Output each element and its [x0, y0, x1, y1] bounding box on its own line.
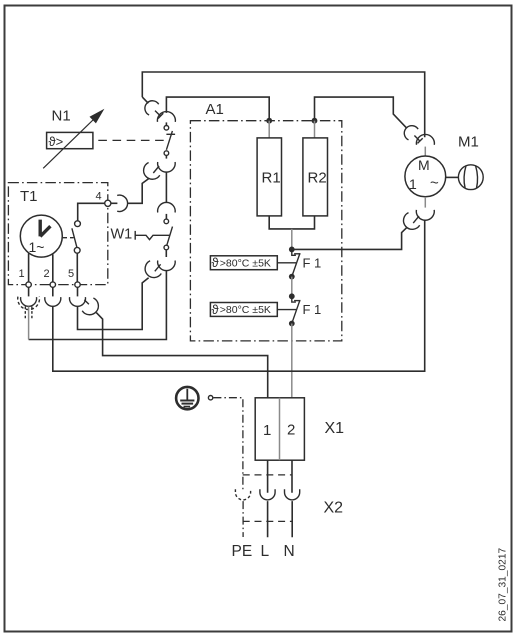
N1 adjustment arrow [43, 109, 104, 169]
N1 thermostat box [47, 132, 93, 149]
wire second bus left to R1 [166, 97, 269, 121]
svg-text:1: 1 [19, 268, 25, 280]
socket below terminal 5 [70, 287, 86, 306]
connector plug beside terminal 5 [82, 298, 98, 315]
wire R1 R2 joiner [269, 216, 314, 229]
PE dash-dot conductor [213, 398, 243, 490]
T1 internal switch [72, 203, 105, 282]
wires X2 tails [268, 501, 293, 537]
wire R2 top stub [314, 121, 316, 138]
connector pair motor bottom [404, 210, 435, 229]
svg-text:26_07_31_0217: 26_07_31_0217 [498, 548, 509, 622]
svg-text:5: 5 [68, 268, 74, 280]
PE pick-off circle [208, 396, 212, 400]
node F1 top [289, 247, 295, 253]
X2 cable boundary dashes lower [243, 520, 293, 522]
node between F1 contacts upper [289, 274, 295, 280]
svg-text:X1: X1 [325, 420, 345, 437]
T1 clock symbol [20, 215, 62, 257]
wire thermal 2 actuator [277, 309, 296, 311]
wire motor top stub [424, 147, 426, 156]
wire F1 output to X1 terminal 2 [291, 324, 293, 398]
W1 switch contact [164, 214, 173, 257]
connector pair below N1 contact [144, 162, 176, 179]
wire pin from terminal 4 [111, 202, 117, 204]
svg-text:R1: R1 [262, 170, 281, 187]
node between F1 contacts lower [289, 293, 295, 299]
wire R1 top stub [268, 121, 270, 138]
wire terminal 2 to motor bottom bus [53, 220, 425, 371]
resistor R2 [303, 138, 328, 216]
T1 clock to switch dashed link [63, 237, 74, 239]
wire connector branch to X1 terminal 1 [96, 313, 267, 398]
wire W1 line down to bus and left to T1 terminal 1 [29, 271, 167, 340]
svg-text:ϑ>: ϑ> [49, 134, 64, 149]
resistor R1 [257, 138, 281, 216]
T1 terminal 5 [68, 268, 80, 287]
T1 terminal 4 [96, 191, 111, 207]
X2 socket PE (dashed) [235, 489, 250, 500]
svg-text:~: ~ [430, 175, 439, 192]
wire motor to fan [446, 176, 459, 178]
node R2 top [312, 118, 318, 124]
svg-text:N1: N1 [52, 108, 71, 125]
svg-text:A1: A1 [206, 101, 224, 118]
fan impeller [458, 165, 483, 190]
N1 control dashed link [98, 139, 168, 141]
wire second bus right from R2 to motor connector [315, 97, 407, 128]
wire thermal 1 actuator [277, 262, 296, 264]
svg-text:R2: R2 [308, 170, 327, 187]
svg-text:M1: M1 [458, 134, 479, 151]
svg-text:W1: W1 [111, 227, 133, 243]
wire connector branch down to bus and left to T1 terminal 5 [78, 278, 149, 330]
svg-text:>80°C ±5K: >80°C ±5K [220, 257, 271, 269]
svg-text:2: 2 [287, 422, 295, 439]
svg-text:1~: 1~ [29, 239, 45, 255]
terminal block X1 [255, 398, 304, 460]
wire connector to T1 terminal 4 [128, 179, 149, 204]
socket below terminal 1 with screen [18, 287, 40, 339]
connector pair below W1 [145, 261, 175, 278]
X2 socket N [285, 489, 300, 500]
X2 cable boundary dashes upper [243, 474, 293, 476]
wire motor bottom stub [424, 197, 426, 208]
socket at T1 terminal 4 [117, 195, 127, 211]
wire F1 node to motor connector branch [292, 227, 407, 249]
X2 socket L [260, 489, 275, 500]
wire N1 line middle [165, 172, 167, 202]
wire feed into connector pair top-left [142, 97, 148, 103]
svg-text:T1: T1 [20, 188, 38, 205]
svg-text:F 1: F 1 [303, 302, 322, 317]
svg-text:N: N [284, 543, 295, 560]
A1 module boundary [190, 121, 341, 341]
node F1 bottom [289, 321, 295, 327]
thermal sensor box 2 [210, 302, 277, 317]
wire joiner drop [291, 229, 293, 250]
T1 terminal 2 [44, 268, 56, 287]
svg-text:4: 4 [96, 191, 102, 203]
connector pair motor top [404, 126, 434, 145]
motor M1 [405, 156, 446, 197]
socket below terminal 2 [45, 287, 61, 306]
svg-text:L: L [261, 543, 270, 560]
svg-text:PE: PE [232, 543, 253, 560]
thermal contact F1 upper [292, 249, 301, 275]
W1 actuator link [135, 231, 170, 240]
wires clock outputs to terminals 1 and 2 [29, 253, 53, 282]
PE dash-dot tail [242, 501, 244, 537]
svg-text:ϑ: ϑ [212, 255, 220, 270]
svg-text:2: 2 [44, 268, 50, 280]
svg-text:F 1: F 1 [303, 255, 322, 270]
node R1 top [266, 118, 272, 124]
svg-text:ϑ: ϑ [212, 302, 220, 317]
svg-text:1: 1 [409, 176, 417, 192]
protective earth symbol [176, 387, 198, 409]
wire top bus [142, 72, 424, 137]
connector pair X on N1 line top [145, 101, 176, 122]
svg-text:X2: X2 [324, 500, 344, 517]
T1 terminal 1 [19, 268, 32, 287]
T1 timer boundary [8, 183, 107, 285]
svg-text:>80°C ±5K: >80°C ±5K [220, 304, 271, 316]
socket above W1 [158, 202, 176, 212]
thermal contact F1 lower [292, 296, 301, 321]
wires X1 to X2 pins [268, 460, 292, 493]
svg-text:M: M [418, 157, 430, 173]
N1 contact (NC) on vertical line [164, 122, 175, 158]
svg-text:1: 1 [263, 422, 271, 439]
thermal sensor box 1 [210, 255, 277, 270]
wire between F1 contacts [291, 277, 293, 297]
